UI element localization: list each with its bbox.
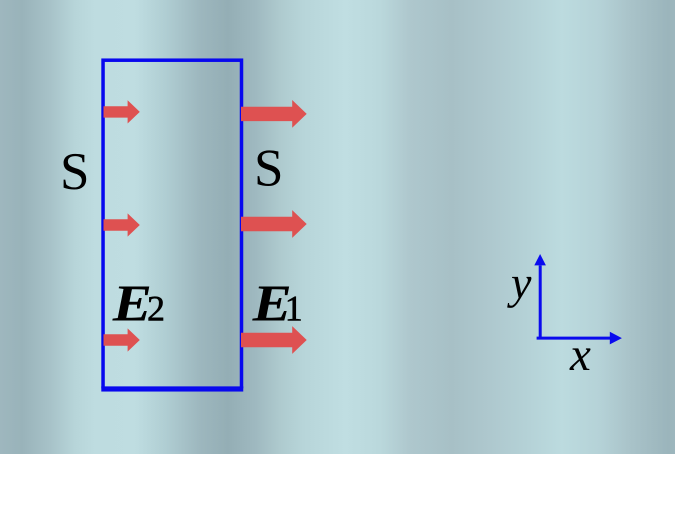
- svg-text:1: 1: [285, 289, 303, 329]
- field arrow E1 row3 (outside slab, bottom): [241, 326, 307, 354]
- y axis arrowhead: [534, 254, 546, 265]
- svg-text:E: E: [112, 276, 152, 333]
- svg-text:S: S: [60, 143, 89, 201]
- x axis line: [537, 337, 611, 340]
- Gaussian surface rectangle (slab boundary): [103, 60, 241, 390]
- y axis line: [539, 266, 542, 340]
- field arrow E1 row1 (outside slab, top): [241, 100, 307, 128]
- field arrow E2 row1 (inside slab, top): [104, 100, 140, 123]
- svg-text:2: 2: [147, 289, 165, 329]
- svg-text:y: y: [507, 257, 532, 308]
- rectangle bottom edge thickening: [101, 386, 243, 388]
- svg-text:x: x: [569, 329, 591, 381]
- field arrow E2 row3 (inside slab, bottom): [104, 328, 140, 351]
- svg-text:S: S: [254, 140, 283, 198]
- field arrow E2 row2 (inside slab, middle): [104, 213, 140, 236]
- x axis arrowhead: [610, 332, 622, 345]
- field arrow E1 row2 (outside slab, middle): [241, 210, 307, 238]
